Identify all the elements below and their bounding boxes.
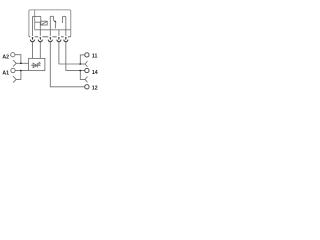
socket cup 4	[57, 40, 61, 42]
plug pins (arrows) and sockets (cups)	[30, 37, 67, 41]
wire A1 to input box	[15, 70, 29, 72]
pin arrow 2	[40, 37, 42, 40]
svg-text:A2: A2	[2, 54, 9, 60]
wire socket5 down to contact 14	[66, 42, 85, 71]
wire A2 to junction	[15, 55, 21, 64]
test fork 14	[80, 70, 85, 79]
wire socket2 to input box	[39, 42, 41, 59]
input circuit box	[29, 58, 45, 70]
coil top wire	[33, 15, 41, 17]
relay module outer housing	[29, 10, 71, 37]
white gaps in strip line at sockets	[30, 36, 68, 38]
LED cathode bar	[36, 63, 38, 67]
contact 12 circle	[85, 85, 89, 89]
socket cup 5	[64, 40, 68, 42]
contact blade arrow inside relay	[54, 21, 56, 23]
junction 11	[79, 63, 81, 65]
wire socket3 down to contact 12	[50, 42, 84, 87]
contact 11 circle	[85, 53, 89, 57]
socket cup 1	[30, 40, 34, 42]
wire up to contact 11	[80, 55, 84, 64]
pin 5 wire	[65, 18, 67, 38]
LED arrow 1	[38, 62, 40, 64]
contact common wire pin 3	[49, 16, 51, 37]
terminal A2 circle	[11, 53, 15, 57]
junction A2	[20, 63, 22, 65]
A2 test fork	[13, 60, 16, 66]
relay inner box left edge	[34, 10, 36, 30]
LED triangle	[33, 63, 37, 67]
pin arrow 4	[58, 37, 60, 40]
relay inner box bottom edge	[35, 29, 71, 31]
wire socket4 down to contact 11	[59, 42, 80, 64]
wire socket1 to input box	[32, 42, 34, 59]
pin arrow 5	[65, 37, 67, 40]
LED arrow 2	[39, 63, 41, 65]
svg-text:11: 11	[92, 54, 98, 60]
svg-text:12: 12	[92, 86, 98, 92]
wire A1 fork up to A1	[16, 71, 21, 80]
terminal A1 circle	[11, 68, 15, 72]
pin 4 wire	[58, 30, 60, 38]
contact common bar	[50, 15, 53, 17]
socket strip line	[29, 36, 71, 38]
socket cup 2	[38, 40, 42, 42]
svg-text:14: 14	[92, 70, 98, 76]
contact 14 circle	[85, 68, 89, 72]
A1 test fork	[13, 76, 16, 82]
contact fixed pair arch	[62, 16, 65, 23]
wire A2 fork to input box	[16, 62, 28, 64]
test fork 11	[80, 63, 85, 65]
coil icon rect A	[35, 16, 41, 22]
junction A1	[20, 70, 22, 72]
pin arrow 1	[32, 37, 34, 40]
coil icon rect B with slash	[41, 21, 47, 25]
coil slash	[41, 21, 47, 25]
junction 14	[79, 70, 81, 72]
pin 1 wire	[32, 16, 34, 37]
pin arrow 3	[50, 37, 52, 40]
pin 2 wire from coil	[39, 22, 41, 37]
LED anode line	[31, 64, 40, 66]
junction dots	[20, 63, 81, 72]
svg-text:A1: A1	[2, 71, 9, 77]
socket cup 3	[48, 40, 52, 42]
contact blade	[54, 17, 56, 29]
